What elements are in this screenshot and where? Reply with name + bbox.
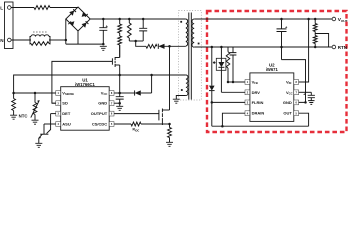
wire choke to bridge — [50, 39, 66, 41]
capacitor C3 (VCC decouple) — [119, 93, 121, 97]
svg-text:L: L — [0, 5, 3, 10]
diode D2 (VCC rectifier) — [120, 92, 135, 94]
U1 pin 6 OUTPUT — [109, 111, 114, 116]
red dashed boundary box — [207, 11, 347, 132]
wire aux return — [176, 96, 186, 100]
wire Q1 drain to chain — [119, 45, 121, 58]
ground (primary DC-) — [100, 46, 107, 50]
resistor F1 (fusible) — [34, 6, 50, 10]
bridge diode D_a — [69, 11, 74, 16]
wire GND row — [114, 102, 120, 104]
svg-text:GND: GND — [98, 101, 107, 106]
U2 pin 3 FLRIN — [245, 100, 250, 105]
diode D4 (SR boxed) — [220, 47, 222, 58]
wire secondary return row — [194, 46, 332, 48]
svg-text:DET: DET — [62, 111, 71, 116]
secondary polarity dot — [198, 43, 200, 45]
capacitor C1 (bulk) — [102, 19, 104, 28]
U2 pin 1 VFB — [245, 80, 250, 85]
svg-text:GND: GND — [283, 100, 292, 105]
terminal RTN — [332, 45, 336, 49]
wire ASU row — [44, 123, 56, 125]
resistor R7 (current sense) — [169, 124, 171, 128]
wire GND riser — [282, 60, 306, 103]
resistor R4 (clamp series) — [146, 44, 157, 48]
svg-text:N: N — [0, 38, 4, 43]
primary polarity dot — [180, 21, 182, 23]
resistor R1 (startup chain upper) — [119, 19, 121, 24]
svg-text:ASU: ASU — [62, 122, 71, 127]
U1 pin 3 DET — [56, 111, 61, 116]
svg-text:+: + — [285, 25, 288, 30]
U1 pin 8 VCC — [109, 91, 114, 96]
resistor R5 (VSENSE lower) — [13, 93, 15, 99]
transformer T1 aux winding — [186, 75, 188, 95]
wire Q1 source to VCC node — [119, 65, 121, 93]
svg-text:SD: SD — [62, 101, 68, 106]
transistor Q3 (OTP) — [47, 114, 51, 134]
wire CS row — [114, 123, 131, 125]
ground (U1 GND) — [116, 106, 123, 110]
svg-text:RTN: RTN — [338, 45, 347, 50]
transformer T1 dotted outline — [179, 11, 202, 101]
wire secondary top rail — [194, 18, 332, 20]
wire aux to D2 — [151, 75, 153, 93]
aux polarity dot — [181, 89, 183, 91]
wire ground to cap branch — [281, 47, 283, 60]
capacitor C7 (U2 VCC) — [299, 91, 312, 93]
svg-text:CS/CDC: CS/CDC — [92, 122, 107, 127]
svg-text:+: + — [106, 23, 109, 28]
wire bridge AC2 leg — [65, 19, 67, 44]
resistor R3 (clamp) — [128, 19, 130, 23]
U2 pin 7 VCC — [294, 90, 299, 95]
transistor Q2 (main switch MOSFET) — [158, 110, 160, 121]
ground (NTC) — [32, 120, 39, 124]
wire Q1 gate line — [52, 61, 113, 103]
resistor R6 (Rloc) — [131, 122, 141, 126]
wire DRV row — [221, 91, 245, 93]
wire divider mid tap — [315, 34, 328, 48]
wire VIN riser — [299, 19, 309, 82]
ground (C7) — [308, 101, 314, 105]
capacitor C6 (VFB filter) — [232, 47, 234, 53]
capacitor C2 (clamp) — [142, 19, 144, 28]
terminal VOUT — [332, 17, 336, 21]
bridge diode D_c — [69, 21, 74, 26]
ground (aux) — [173, 99, 180, 103]
wire bottom drain rail — [212, 125, 309, 127]
connector J1 (AC input) — [5, 2, 14, 49]
resistor R9 (divider lower) — [313, 36, 317, 44]
wire N to choke — [11, 39, 30, 41]
U1 pin 7 GND — [109, 101, 114, 106]
wire VFB row — [228, 81, 245, 83]
U1 pin 1 VSENSE — [56, 91, 61, 96]
resistor R10 (VFB filter) — [227, 47, 229, 52]
svg-text:DRAIN: DRAIN — [252, 111, 265, 116]
resistor R2 (startup chain lower) — [119, 33, 121, 36]
transformer T1 secondary winding — [192, 19, 194, 47]
bridge diode D_d — [82, 23, 87, 28]
svg-text:NTC: NTC — [19, 114, 28, 119]
U2 pin 4 DRAIN — [245, 111, 250, 116]
wire OUT routing — [299, 113, 309, 126]
ground (R7) — [166, 142, 173, 146]
svg-text:OUTPUT: OUTPUT — [91, 111, 108, 116]
transformer T1 core — [189, 13, 192, 100]
U1 pin 2 SD — [56, 101, 61, 106]
wire aux sense line — [14, 75, 186, 93]
U1 pin 4 ASU — [56, 122, 61, 127]
wire DRAIN row — [222, 113, 245, 126]
svg-text:iW671: iW671 — [266, 67, 279, 72]
wire VSENSE row — [14, 92, 56, 94]
U2 pin 5 OUT — [294, 111, 299, 116]
svg-text:RIOC: RIOC — [133, 128, 140, 133]
diode D1 (clamp) — [157, 44, 159, 49]
op-amp U2 (iW671 SR controller) — [250, 73, 294, 122]
wire Q2 drain — [169, 46, 171, 110]
U2 pin 8 VIN — [294, 80, 299, 85]
svg-text:FLRIN: FLRIN — [252, 100, 264, 105]
U2 pin 6 GND — [294, 100, 299, 105]
wire HV bus — [90, 18, 186, 20]
resistor R8 (divider upper) — [314, 19, 316, 24]
ground (Q3 emitter) — [35, 143, 42, 147]
wire OUTPUT row (gate drive) — [114, 113, 159, 115]
transistor Q1 (startup MOSFET) — [111, 58, 113, 64]
wire FLRIN row — [212, 101, 245, 103]
U2 pin 2 DRV — [245, 90, 250, 95]
wire SD row — [52, 102, 56, 104]
choke LF1 (L parallel R) — [30, 36, 50, 45]
wire bridge negative leg — [77, 31, 79, 44]
bridge diode D_b — [82, 12, 87, 17]
wire clamp bottom bar — [129, 40, 143, 42]
wire VCC row — [114, 92, 120, 94]
wire primary ground rail — [66, 43, 104, 45]
transformer T1 primary winding — [186, 19, 188, 46]
wire fuse to bridge top — [50, 7, 78, 9]
svg-text:DRV: DRV — [252, 90, 261, 95]
svg-text:iW1766C1: iW1766C1 — [75, 82, 95, 87]
diode D3 (SR body) — [211, 47, 213, 85]
capacitor C5 (output bulk) — [281, 19, 283, 29]
bridge rectifier BR1 — [66, 7, 90, 31]
wire DET row — [51, 113, 56, 115]
svg-text:OUT: OUT — [283, 111, 292, 116]
svg-text:+: + — [303, 92, 305, 96]
op-amp U1 (iW1766C1 controller) — [61, 87, 109, 131]
ground (R5) — [10, 115, 17, 119]
wire L to fuse — [11, 7, 34, 9]
U1 pin 5 CS/CDC — [109, 122, 114, 127]
